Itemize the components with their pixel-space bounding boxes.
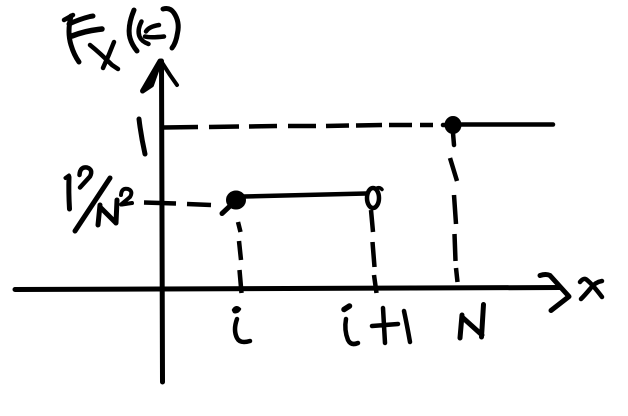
x tick label i+1: i — [344, 306, 350, 310]
dashed vertical at N — [450, 158, 458, 282]
label i^2/N^2: N — [98, 200, 117, 225]
filled point at (N,1) — [445, 117, 461, 134]
open point at (i+1, i^2/N^2) — [367, 188, 379, 208]
y-axis — [162, 61, 163, 382]
label i^2/N^2: slash — [75, 178, 110, 231]
tick and dashes at i^2/N^2 level — [144, 203, 211, 206]
label F_X(x): inner x — [139, 22, 149, 45]
label i^2/N^2: i — [66, 176, 70, 179]
label i^2/N^2: sup 2 — [121, 189, 132, 205]
step segment from i to i+1 — [244, 194, 366, 197]
dashed vertical at i — [238, 222, 242, 293]
x tick label i+1: 1 — [404, 311, 410, 342]
x-axis label x — [580, 279, 602, 297]
y-axis arrowhead — [143, 61, 161, 91]
label F_X(x): open paren — [129, 10, 137, 51]
label F_X(x): close paren — [163, 9, 178, 49]
label i^2/N^2: sup 2 — [80, 167, 92, 187]
dashed vertical at i+1 — [371, 210, 377, 293]
x-axis — [15, 288, 560, 290]
dashed level line y=1 — [163, 125, 433, 128]
x tick label i+1: plus — [372, 308, 398, 343]
x tick label N — [460, 305, 484, 339]
x-axis arrowhead — [540, 275, 569, 311]
label F_X(x): subscript X — [90, 45, 118, 69]
solid line y=1 right of N — [461, 122, 553, 127]
x tick label i — [233, 307, 240, 312]
filled point at (i, i^2/N^2) — [227, 191, 246, 209]
label F_X(x): F — [64, 15, 73, 20]
y tick label 1 — [139, 119, 145, 154]
